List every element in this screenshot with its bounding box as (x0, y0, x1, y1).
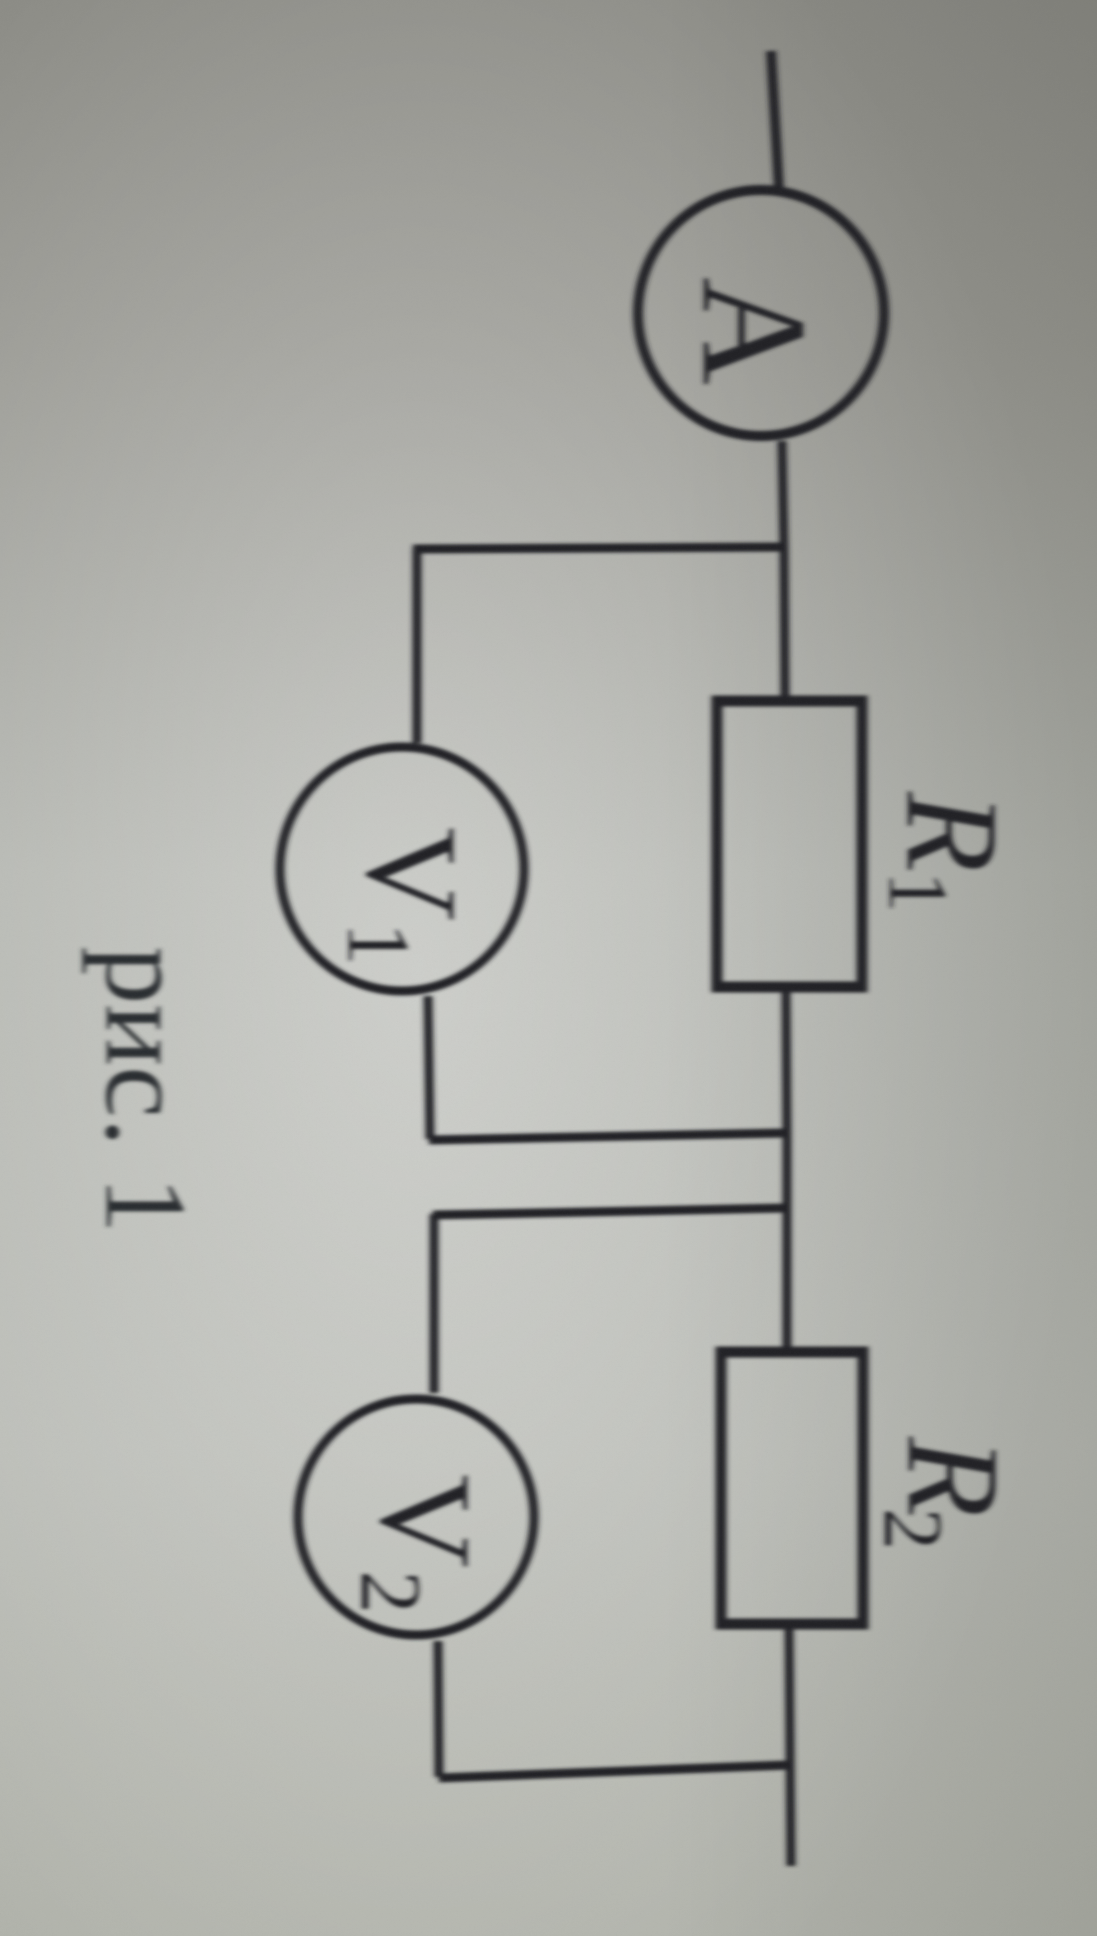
wire node J3 horizontal (433, 1208, 787, 1215)
ammeter A (638, 190, 884, 436)
wire R2 bottom lead (789, 1624, 791, 1866)
wire node J1 horizontal (413, 547, 785, 549)
resistor R1 (717, 701, 1026, 987)
voltmeter V1 (280, 747, 524, 991)
wire V1 bottom lead (428, 996, 430, 1139)
wire V1 top lead (413, 549, 422, 743)
wire ammeter to node J1 (782, 441, 784, 550)
wire top lead (771, 51, 779, 189)
wire J1 to R1 (784, 549, 785, 702)
wire node J2 to J3 (783, 1134, 792, 1208)
wire node J4 horizontal (439, 1765, 789, 1778)
resistor R2 (721, 1352, 1027, 1624)
wire R1 to node J2 (786, 986, 787, 1134)
voltmeter V2 (298, 1399, 534, 1635)
wire V2 top lead (430, 1214, 439, 1393)
wire node J2 horizontal (429, 1133, 787, 1140)
wire V2 bottom lead (438, 1641, 439, 1777)
wire J3 to R2 (783, 1208, 792, 1353)
